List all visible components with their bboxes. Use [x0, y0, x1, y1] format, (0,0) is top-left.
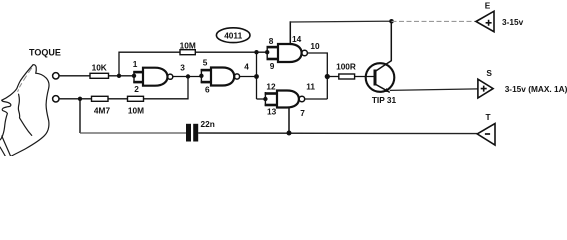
top supply rail	[290, 20, 391, 23]
svg-text:10M: 10M	[180, 40, 196, 50]
wire 10M to feedback corner	[144, 77, 189, 99]
IC marker ellipse 4011	[216, 28, 250, 43]
node: junction dot gate4 input	[263, 97, 267, 101]
svg-text:4011: 4011	[224, 30, 242, 40]
svg-text:2: 2	[134, 84, 139, 94]
svg-text:11: 11	[306, 81, 315, 91]
wire 10M upper to pin4 net	[195, 51, 267, 53]
wire pin4 vertical net	[256, 52, 258, 99]
wire rail to E terminal	[392, 20, 477, 22]
touch contact (top)	[53, 73, 59, 79]
transistor emitter arrowhead	[384, 88, 389, 92]
svg-text:13: 13	[267, 106, 277, 116]
svg-text:TIP 31: TIP 31	[372, 95, 397, 105]
resistor 4M7	[92, 96, 109, 101]
NAND gate U1B (pins 5,6,4)	[201, 68, 240, 86]
bottom rail (right of capacitor)	[198, 132, 477, 135]
svg-text:4: 4	[244, 61, 249, 71]
terminal E (triangle +)	[476, 11, 494, 32]
wire junction down to bottom rail	[79, 99, 81, 133]
node: junction dot gate2 input	[199, 74, 203, 78]
node: junction dot pin4	[254, 74, 259, 79]
touch contact (bottom)	[53, 96, 59, 102]
resistor 100R	[339, 74, 355, 79]
bottom rail (left of capacitor)	[80, 132, 186, 134]
svg-text:E: E	[485, 1, 491, 11]
svg-text:TOQUE: TOQUE	[29, 47, 61, 57]
wire pin7 down to bottom rail	[288, 108, 290, 134]
wire gate1 out to gate2 in	[173, 76, 202, 78]
terminal S (triangle +)	[478, 79, 493, 98]
wire 100R to base	[355, 76, 375, 78]
node: junction dot feedback/pin4	[254, 50, 258, 54]
capacitor C1 22n	[186, 124, 191, 142]
svg-text:3-15v: 3-15v	[502, 17, 524, 27]
wire to gate4 input	[257, 98, 266, 100]
node: junction dot feedback riser	[117, 74, 121, 78]
hand sketch (finger touching contacts)	[0, 65, 49, 156]
svg-text:100R: 100R	[336, 61, 356, 71]
svg-text:S: S	[486, 68, 492, 78]
svg-text:10K: 10K	[92, 62, 107, 72]
wire emitter to S terminal	[390, 89, 478, 91]
NAND gate U1D (pins 12,13,11, vss 7)	[265, 91, 305, 108]
wire pin14 to top rail	[289, 21, 291, 44]
node: junction dot to bottom rail	[78, 97, 82, 101]
wire bottom contact to 4M7	[59, 98, 91, 100]
wire gate2 out to vertical net	[240, 76, 257, 78]
svg-text:3-15v (MAX. 1A): 3-15v (MAX. 1A)	[505, 84, 567, 94]
wire 10K to gate 1 input	[109, 75, 135, 77]
hand finger inner crease (faint)	[18, 68, 32, 92]
svg-text:9: 9	[270, 61, 275, 71]
resistor 10M (lower)	[128, 96, 144, 101]
svg-text:1: 1	[133, 59, 138, 69]
svg-text:10: 10	[310, 41, 320, 51]
svg-text:12: 12	[266, 81, 276, 91]
transistor Q1 TIP 31	[366, 21, 395, 92]
svg-text:6: 6	[205, 85, 210, 95]
wire top contact to 10K	[59, 75, 90, 77]
node: junction dot gate3 input	[265, 50, 269, 54]
resistor 10M (upper feedback)	[180, 50, 195, 55]
node: junction dot at gate 1 input	[132, 74, 136, 78]
NAND gate U1A (pins 1,2,3)	[133, 68, 172, 86]
wire gate3 out down to 100R node	[307, 53, 327, 99]
wire node to 100R	[327, 76, 339, 78]
svg-text:4M7: 4M7	[94, 105, 111, 115]
svg-text:10M: 10M	[128, 105, 144, 115]
svg-text:5: 5	[203, 58, 208, 68]
node: junction dot outputs to 100R	[325, 74, 330, 79]
svg-text:T: T	[485, 112, 490, 122]
terminal T (triangle -)	[477, 124, 495, 146]
svg-text:22n: 22n	[201, 119, 215, 129]
svg-text:8: 8	[269, 36, 274, 46]
wire feedback riser up from gate1 input	[119, 52, 180, 76]
resistor 10K	[90, 73, 109, 78]
svg-text:14: 14	[292, 34, 302, 44]
wire gate4 out up to 100R node	[305, 98, 328, 100]
node: junction dot collector/rail	[389, 19, 394, 24]
NAND gate U1C (pins 8,9,10, vdd 14)	[267, 44, 308, 62]
svg-text:3: 3	[180, 62, 185, 72]
node: junction dot pin3 feedback	[186, 74, 190, 78]
node: junction dot pin7/rail	[287, 131, 292, 136]
svg-text:7: 7	[300, 108, 305, 118]
wire 4M7 to 10M	[108, 98, 128, 100]
